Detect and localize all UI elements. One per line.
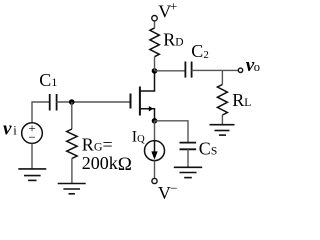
source vi [22,123,43,144]
terminal vo [238,68,242,72]
transistor M1: channel bar [139,87,141,116]
terminal V+ [152,16,157,21]
svg-text:−: − [28,130,35,145]
resistor RG [67,129,77,158]
ground (RG) [58,184,86,194]
svg-text:o: o [254,60,260,74]
capacitor CS [180,143,197,150]
terminal V- [152,178,157,183]
wire: vi top riser and gate horizontal to C1 [32,102,50,123]
wire: RG to ground [71,158,73,183]
resistor RL [217,85,227,116]
svg-text:V: V [158,183,171,203]
ground (vi) [18,169,46,181]
wire: source node to CS [155,121,189,143]
current source IQ [145,141,165,161]
wire: source node down to IQ [154,121,156,141]
wire: RL to ground [221,115,223,124]
wire: IQ to V- terminal [154,161,156,179]
wire: drain dot up to RD [154,57,156,71]
transistor M1: drain lead [140,71,155,91]
wire: C2 to vo terminal [192,69,239,71]
ground (CS) [174,167,202,177]
svg-text:v: v [3,119,12,140]
transistor M1: gate bar [130,94,132,109]
wire: C1 to gate bar [57,101,131,103]
svg-text:−: − [170,180,177,195]
transistor M1: source lead with arrow [140,109,155,121]
wire: vi to ground [31,143,33,169]
node: gate junction dot [69,99,75,105]
wire: CS to ground [187,149,189,167]
wire: RD to V+ terminal [154,21,156,28]
resistor RD [150,28,159,57]
node: drain dot [152,68,158,74]
wire: junction down to RG [71,102,73,129]
wire: drain node to C2 [155,70,186,72]
wire: RL branch down [221,70,223,84]
svg-text:+: + [170,0,177,13]
ground (RL) [210,125,235,135]
node: source junction dot [152,118,158,124]
svg-text:i: i [13,124,17,138]
capacitor C2 [185,62,191,78]
svg-text:200kΩ: 200kΩ [82,153,132,175]
capacitor C1 [50,94,57,111]
